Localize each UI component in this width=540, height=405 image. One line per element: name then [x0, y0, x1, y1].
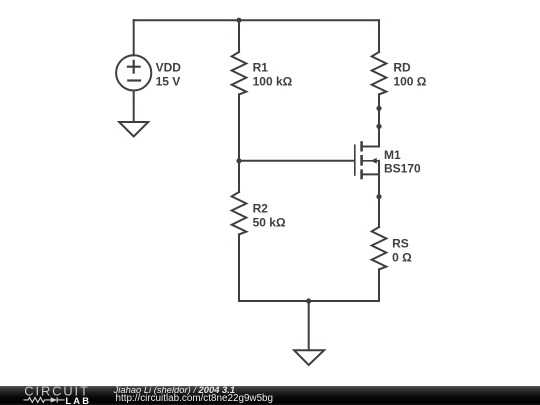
resistor R1 [232, 52, 247, 94]
resistor R2 [232, 192, 247, 234]
ground bottom [294, 350, 324, 365]
resistor RD [372, 52, 387, 94]
voltage source minus sign [128, 79, 140, 81]
wire R1 bottom to gate node [238, 94, 240, 160]
wire R2 bottom lead [238, 234, 240, 301]
svg-text:100 Ω: 100 Ω [393, 74, 426, 88]
svg-text:15 V: 15 V [156, 74, 181, 88]
node gate junction dot [236, 158, 241, 163]
wire source to RS [378, 174, 380, 227]
wire RS bottom lead [378, 269, 380, 301]
wire RD bottom to drain [378, 94, 380, 146]
voltage source VDD circle [116, 55, 151, 90]
transistor M1 channel bar middle [360, 155, 363, 166]
transistor M1 channel bar bottom [360, 169, 363, 179]
wire ground stem [308, 301, 310, 350]
transistor M1 body line with arrow [363, 160, 379, 162]
wire gate [239, 160, 354, 162]
footer bar [0, 386, 540, 405]
node dot source [376, 194, 381, 199]
transistor M1 source line [363, 173, 379, 175]
footer text line 2 [116, 394, 274, 404]
wire R2 top lead [238, 161, 240, 192]
wire R1 top lead [238, 20, 240, 52]
node dot drain a [376, 106, 381, 111]
svg-text:VDD: VDD [156, 60, 182, 74]
svg-text:RS: RS [392, 236, 409, 250]
resistor RS [372, 227, 387, 269]
node bottom junction dot [306, 298, 311, 303]
wire VDD bottom lead [133, 91, 135, 123]
wire top rail [134, 19, 379, 21]
svg-text:R1: R1 [253, 60, 269, 74]
CircuitLab logo [0, 386, 110, 405]
svg-text:BS170: BS170 [384, 162, 421, 176]
svg-text:LAB: LAB [65, 396, 91, 405]
wire VDD top lead [133, 20, 135, 55]
transistor M1 gate bar [354, 144, 356, 175]
transistor M1 body-source connector [378, 161, 380, 175]
svg-text:100 kΩ: 100 kΩ [253, 74, 293, 88]
transistor M1 drain line [363, 146, 379, 148]
transistor M1 channel bar top [360, 141, 363, 151]
footer text line 1 [114, 385, 235, 394]
svg-text:RD: RD [393, 60, 411, 74]
svg-text:M1: M1 [384, 148, 401, 162]
svg-text:50 kΩ: 50 kΩ [253, 215, 286, 229]
node top junction dot [236, 18, 241, 23]
wire RD top lead [378, 20, 380, 52]
node dot drain b [376, 124, 381, 129]
svg-text:0 Ω: 0 Ω [392, 250, 412, 264]
svg-text:R2: R2 [253, 201, 269, 215]
ground VDD [119, 122, 148, 137]
voltage source plus sign [128, 61, 140, 73]
wire bottom rail [239, 300, 379, 302]
